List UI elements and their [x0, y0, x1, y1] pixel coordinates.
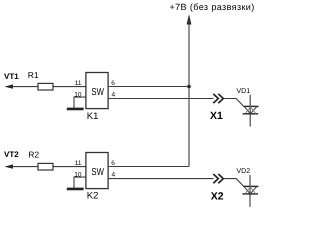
svg-text:+7В (без развязки): +7В (без развязки): [170, 2, 255, 12]
node VT2: [4, 150, 19, 159]
resistor R1: [28, 70, 53, 90]
svg-text:VT2: VT2: [4, 150, 19, 159]
net +7V label: [170, 2, 255, 12]
wire K2 pin6 to +7V: [108, 166, 189, 168]
svg-text:K1: K1: [87, 111, 99, 122]
svg-text:11: 11: [75, 80, 82, 87]
svg-text:VD2: VD2: [237, 168, 251, 175]
pin 10 label: [74, 91, 82, 98]
ground K2: [67, 188, 84, 191]
VD2 label: [237, 168, 251, 175]
K1 label: [87, 111, 99, 122]
pin 11 label K2: [75, 160, 82, 167]
wire +7V vertical: [188, 20, 190, 167]
power arrow up: [187, 14, 192, 24]
VD1 label: [237, 88, 251, 95]
thyristor VD2: [242, 175, 258, 207]
resistor R2: [28, 149, 53, 170]
connector X1 contacts: [213, 94, 223, 103]
wire K1 pin4 to X1: [108, 98, 213, 100]
wire VT1 arrow left: [5, 84, 39, 88]
wire K1 pin10 to ground: [74, 97, 86, 108]
svg-text:R2: R2: [28, 149, 39, 159]
svg-text:4: 4: [112, 171, 116, 178]
relay K2 box: [86, 153, 108, 189]
node VT1: [4, 72, 19, 81]
wire R1 to K1 pin11: [53, 86, 86, 88]
svg-text:VT1: VT1: [4, 72, 19, 81]
K2 label: [87, 191, 99, 202]
pin 6 label K1: [111, 80, 115, 87]
wire X1 to VD1 gate: [223, 99, 243, 107]
svg-text:VD1: VD1: [237, 88, 251, 95]
wire R2 to K2 pin11: [53, 166, 86, 168]
svg-text:R1: R1: [28, 70, 39, 80]
svg-text:4: 4: [112, 91, 116, 98]
thyristor VD1: [243, 95, 259, 127]
svg-text:SW: SW: [91, 87, 104, 98]
pin 4 label K2: [112, 171, 116, 178]
svg-text:X1: X1: [210, 110, 223, 122]
svg-text:11: 11: [75, 160, 82, 167]
relay K1 box: [86, 73, 108, 109]
pin 6 label K2: [111, 160, 115, 167]
wire X2 to VD2 gate: [223, 179, 243, 187]
pin 11 label: [75, 80, 82, 87]
svg-text:X2: X2: [211, 190, 224, 202]
wire K2 pin10 to ground: [74, 177, 86, 188]
wire VT2 arrow left: [5, 164, 39, 168]
svg-text:SW: SW: [91, 167, 104, 178]
connector X2 contacts: [213, 174, 223, 183]
pin 4 label K1: [112, 91, 116, 98]
wire K1 pin6 to +7V: [108, 86, 189, 88]
wire K2 pin4 to X2: [108, 178, 213, 180]
X1 label: [210, 110, 223, 122]
X2 label: [211, 190, 224, 202]
svg-text:K2: K2: [87, 191, 99, 202]
ground K1: [67, 108, 84, 111]
pin 10 label K2: [74, 171, 82, 178]
node junction K1 pin6 to +7V: [187, 85, 191, 89]
